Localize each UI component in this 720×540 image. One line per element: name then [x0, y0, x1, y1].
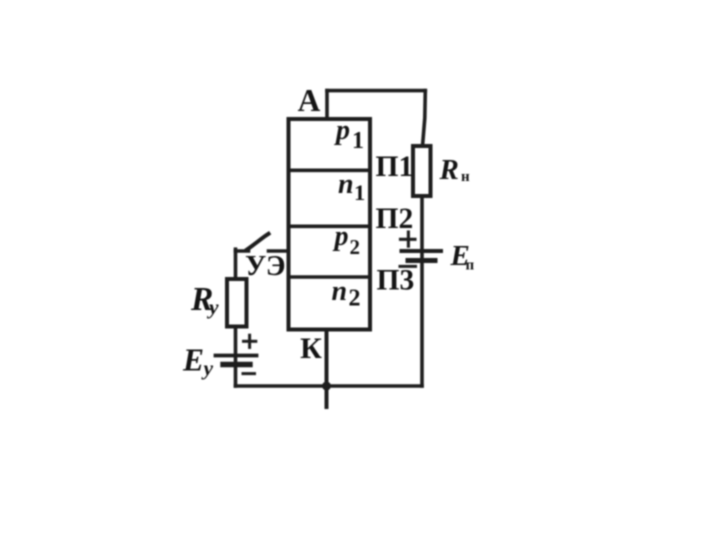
svg-text:К: К — [300, 332, 322, 365]
wire from gate contact to body — [269, 249, 289, 253]
svg-text:p: p — [333, 221, 349, 252]
switch blade (open) — [247, 234, 269, 250]
svg-text:П3: П3 — [377, 265, 415, 297]
battery Eu negative plate — [223, 362, 250, 367]
svg-text:n: n — [338, 169, 354, 200]
svg-text:E: E — [182, 343, 204, 378]
svg-text:R: R — [439, 154, 459, 186]
resistor Rn — [413, 146, 431, 196]
wire right vertical to Rn — [423, 91, 426, 146]
minus sign of Eu — [243, 372, 255, 375]
wire top horizontal — [327, 89, 425, 93]
wire switch pivot horizontal — [236, 249, 249, 253]
wire Ru to battery Eu — [234, 328, 238, 386]
thyristor body (four-layer p-n-p-n structure) — [289, 119, 371, 330]
plus sign of En — [401, 232, 416, 246]
battery En negative plate — [408, 258, 435, 263]
svg-text:1: 1 — [354, 180, 365, 205]
junction line P2 (n1/p2 divider) — [289, 225, 371, 229]
junction line P3 (p2/n2 divider) — [289, 275, 371, 279]
wire gate lead down to Ru — [234, 249, 238, 277]
resistor Ru — [227, 279, 247, 327]
svg-text:2: 2 — [349, 286, 361, 312]
junction line P1 (p1/n1 divider) — [289, 169, 371, 173]
wire cathode lead down from body through junction — [325, 330, 329, 408]
svg-text:УЭ: УЭ — [245, 250, 286, 282]
plus sign of Eu — [244, 335, 256, 347]
battery Eu positive plate — [216, 354, 257, 358]
battery En positive plate — [402, 249, 442, 253]
svg-text:П2: П2 — [376, 203, 414, 235]
svg-text:p: p — [334, 115, 350, 146]
wire from Rn down through battery to bottom corner — [420, 197, 424, 386]
svg-text:н: н — [461, 169, 470, 185]
wire anode lead up from body — [325, 91, 329, 119]
svg-text:1: 1 — [352, 128, 364, 154]
svg-text:2: 2 — [350, 235, 361, 259]
svg-text:n: n — [332, 276, 348, 307]
node K junction dot — [322, 382, 331, 391]
svg-text:А: А — [298, 83, 321, 118]
wire bottom horizontal — [236, 384, 423, 388]
minus sign of En — [400, 265, 416, 268]
svg-text:П1: П1 — [376, 151, 414, 183]
svg-text:п: п — [466, 257, 475, 273]
